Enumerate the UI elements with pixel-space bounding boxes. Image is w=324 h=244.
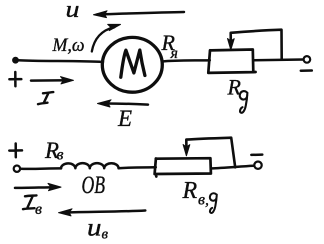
svg-text:в: в	[57, 147, 64, 164]
svg-text:M,ω: M,ω	[52, 35, 85, 56]
svg-text:R: R	[182, 178, 198, 204]
svg-text:ОВ: ОВ	[82, 172, 106, 199]
svg-text:в,: в,	[198, 192, 209, 209]
svg-text:в: в	[102, 227, 109, 243]
svg-text:я: я	[170, 45, 178, 62]
svg-text:в: в	[35, 201, 42, 218]
svg-text:u: u	[66, 0, 80, 23]
svg-text:E: E	[117, 106, 132, 131]
svg-text:u: u	[87, 215, 102, 242]
